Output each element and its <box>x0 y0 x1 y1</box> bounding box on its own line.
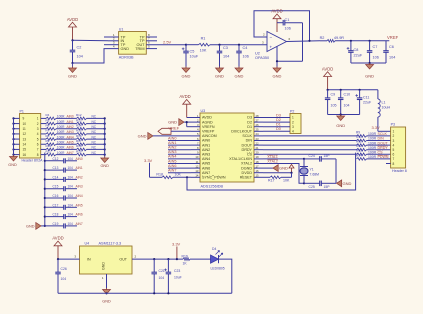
svg-text:GND: GND <box>26 224 35 228</box>
svg-text:R11: R11 <box>46 149 52 153</box>
IC U1 ADR03B body <box>119 32 147 55</box>
svg-text:1: 1 <box>292 116 294 120</box>
svg-text:C9: C9 <box>331 93 336 97</box>
resistor R12 100R on DRDY <box>357 148 367 151</box>
bottom ground rail <box>58 292 232 294</box>
svg-text:−: − <box>270 35 273 40</box>
U1 pin 4 GND wire <box>73 49 119 63</box>
svg-text:AIN5: AIN5 <box>202 162 210 166</box>
ground GND right of crystal <box>337 180 342 187</box>
svg-text:AIN2: AIN2 <box>202 148 210 152</box>
svg-text:D1: D1 <box>247 125 252 129</box>
capacitor C6 104 <box>385 41 387 51</box>
U1 pin 5 TRIM stub <box>146 48 157 50</box>
svg-text:ASM1117-3.3: ASM1117-3.3 <box>99 241 122 245</box>
svg-text:C14: C14 <box>53 175 59 179</box>
svg-text:XTAL1/CLKIN: XTAL1/CLKIN <box>229 157 252 161</box>
ground GND below C5 <box>185 67 187 69</box>
svg-text:AIN0: AIN0 <box>76 157 83 161</box>
ground below AVDD bank <box>340 115 342 117</box>
wire DIN from U3 to resistor <box>263 140 357 142</box>
P1 left pins ground rail <box>14 117 20 119</box>
capacitor C12 104 on AIN0 <box>44 160 46 162</box>
capacitor C10 104 <box>340 90 342 98</box>
svg-text:C21: C21 <box>159 269 165 273</box>
resistor R14 100R on PDWN row <box>357 158 367 161</box>
power arrow on DVDD <box>291 168 293 173</box>
ground GND at caps rail bottom <box>41 225 45 227</box>
svg-text:7.68M: 7.68M <box>310 173 320 177</box>
svg-text:3.3V: 3.3V <box>372 125 381 130</box>
svg-text:C26: C26 <box>61 267 67 271</box>
svg-text:R12: R12 <box>76 113 82 117</box>
svg-text:AIN2: AIN2 <box>76 175 83 179</box>
svg-text:104: 104 <box>68 166 74 170</box>
svg-text:R7: R7 <box>46 129 50 133</box>
AVDD rail <box>328 89 378 91</box>
svg-text:R15: R15 <box>76 129 82 133</box>
svg-text:R6: R6 <box>46 124 50 128</box>
AVDD bank ground rail <box>328 114 360 116</box>
svg-text:+: + <box>270 45 273 50</box>
op-amp U2 OPA350 triangle <box>267 32 287 52</box>
AIN caps ground rail <box>44 153 46 226</box>
ground below op-amp <box>276 67 278 69</box>
svg-text:GND: GND <box>273 74 282 79</box>
svg-text:1K: 1K <box>183 261 188 265</box>
svg-text:AGND: AGND <box>202 120 213 124</box>
svg-text:1: 1 <box>393 130 395 134</box>
svg-text:GND: GND <box>215 74 224 79</box>
svg-text:104: 104 <box>68 203 74 207</box>
svg-text:7: 7 <box>393 157 395 161</box>
capacitor C3 104 <box>218 44 220 46</box>
svg-text:6: 6 <box>37 143 39 147</box>
svg-text:4: 4 <box>393 143 395 147</box>
svg-text:D0: D0 <box>276 127 281 131</box>
wire PDWN to P3 pin7 <box>367 158 391 160</box>
capacitor C15 104 on AIN3 <box>44 188 46 190</box>
svg-text:2.5V: 2.5V <box>163 40 172 45</box>
svg-text:16: 16 <box>23 153 27 157</box>
svg-text:D4: D4 <box>212 247 216 251</box>
U1 pin 3 TP stub <box>104 44 119 46</box>
wire DOUT from U3 to resistor <box>263 144 357 146</box>
svg-text:GND: GND <box>279 166 288 171</box>
svg-text:C13: C13 <box>53 166 59 170</box>
svg-text:AIN3: AIN3 <box>76 185 83 189</box>
wire XTAL1 row <box>263 158 304 160</box>
svg-text:AIN4: AIN4 <box>168 155 176 159</box>
svg-text:AIN2: AIN2 <box>168 146 176 150</box>
svg-text:U2: U2 <box>255 52 260 56</box>
svg-text:14: 14 <box>23 143 27 147</box>
capacitor C4 106 <box>238 44 240 46</box>
svg-text:3: 3 <box>393 139 395 143</box>
svg-text:C25: C25 <box>309 185 315 189</box>
power AVDD (right mid) <box>327 77 329 90</box>
svg-text:3.3V: 3.3V <box>172 241 181 246</box>
wire DIN to P3 <box>367 140 391 142</box>
svg-text:10K: 10K <box>283 179 290 183</box>
resistor R11 100R on DOUT <box>357 144 367 147</box>
wire DRDY from U3 to resistor <box>263 149 357 151</box>
svg-text:GND: GND <box>336 123 345 128</box>
svg-text:104: 104 <box>77 55 83 59</box>
resistor R18 10K on SYNC <box>150 176 163 178</box>
ground GND at U3 DGND <box>263 167 273 169</box>
svg-text:ADR03B: ADR03B <box>119 56 134 60</box>
svg-text:AIN4: AIN4 <box>202 157 210 161</box>
svg-text:R10: R10 <box>356 135 362 139</box>
svg-text:10uH: 10uH <box>382 106 391 110</box>
svg-text:AIN7: AIN7 <box>76 222 83 226</box>
svg-text:GND: GND <box>168 120 177 125</box>
svg-text:104: 104 <box>68 157 74 161</box>
capacitor C14 104 on AIN2 <box>44 178 46 180</box>
svg-text:C18: C18 <box>53 213 59 217</box>
capacitor C18 104 on AIN6 <box>44 216 46 218</box>
ground below C4 <box>238 67 240 69</box>
svg-text:U3: U3 <box>201 109 206 113</box>
svg-text:8: 8 <box>393 162 395 166</box>
svg-text:L1: L1 <box>382 101 386 105</box>
svg-text:AIN1: AIN1 <box>202 143 210 147</box>
svg-text:U4: U4 <box>85 241 90 245</box>
svg-text:6: 6 <box>393 153 395 157</box>
svg-text:13: 13 <box>23 137 27 141</box>
power AVDD (bottom-left) <box>57 246 59 259</box>
wire SYNC_PDWN route down and right <box>186 176 188 178</box>
capacitor C11 22uF <box>359 90 361 98</box>
svg-text:C24: C24 <box>309 154 315 158</box>
svg-text:Y1: Y1 <box>310 168 314 172</box>
svg-text:R5: R5 <box>46 118 50 122</box>
U1 pin 6 OUT wire 2.5V <box>146 44 186 46</box>
svg-text:104: 104 <box>68 213 74 217</box>
svg-text:15P: 15P <box>324 154 331 158</box>
svg-text:R10: R10 <box>46 144 52 148</box>
svg-text:C15: C15 <box>53 185 59 189</box>
svg-text:R1: R1 <box>201 37 206 41</box>
wire DVDD down to RESET pullup <box>290 172 292 174</box>
svg-text:R9: R9 <box>356 130 360 134</box>
resistor R13 100R on CS <box>357 153 367 156</box>
svg-text:R13: R13 <box>76 118 82 122</box>
U3 left pin stubs <box>191 117 200 119</box>
svg-text:C8: C8 <box>354 48 359 52</box>
resistor R10 100R on DIN <box>357 139 367 142</box>
svg-text:P2: P2 <box>290 109 294 113</box>
svg-text:10K: 10K <box>175 172 182 176</box>
svg-text:C10: C10 <box>344 93 351 97</box>
svg-text:105: 105 <box>331 104 337 108</box>
svg-text:R19: R19 <box>182 254 188 258</box>
svg-text:R16: R16 <box>76 134 82 138</box>
wire SCLK to P3 <box>367 135 391 137</box>
svg-text:5: 5 <box>37 137 39 141</box>
wire CS from U3 to resistor <box>263 153 357 155</box>
svg-text:C6: C6 <box>389 45 394 49</box>
svg-text:GND: GND <box>102 262 106 270</box>
svg-text:C17: C17 <box>53 203 59 207</box>
feedback loop wire - to output <box>254 11 310 41</box>
svg-text:7: 7 <box>37 148 39 152</box>
svg-text:R19: R19 <box>76 149 82 153</box>
svg-text:AVDD: AVDD <box>52 236 63 241</box>
wire AVDD to U4 IN <box>58 258 80 260</box>
svg-text:R14: R14 <box>76 124 82 128</box>
svg-text:9: 9 <box>23 117 25 121</box>
svg-text:R17: R17 <box>76 139 82 143</box>
svg-text:R12: R12 <box>356 144 362 148</box>
wire AGND to VREFN <box>186 122 188 127</box>
svg-text:R9: R9 <box>46 139 50 143</box>
svg-text:3.3V: 3.3V <box>144 158 153 163</box>
svg-text:10uF: 10uF <box>190 55 199 59</box>
svg-text:15: 15 <box>23 148 27 152</box>
svg-text:GND: GND <box>365 74 374 79</box>
svg-text:C19: C19 <box>53 222 59 226</box>
header P2 body <box>290 114 301 134</box>
svg-text:OPA350: OPA350 <box>255 56 269 60</box>
svg-text:2: 2 <box>292 120 294 124</box>
svg-text:GND: GND <box>100 164 109 168</box>
svg-text:VREFP: VREFP <box>202 130 215 134</box>
wire L1 to P3 pin1 3.3V <box>378 130 391 132</box>
resistor R19 1K to LED <box>183 258 190 261</box>
svg-text:4: 4 <box>37 132 39 136</box>
svg-text:AIN3: AIN3 <box>202 153 210 157</box>
wire DRDY to P3 <box>367 149 391 151</box>
svg-text:D3: D3 <box>276 113 281 117</box>
svg-text:104: 104 <box>68 194 74 198</box>
svg-text:R8: R8 <box>46 134 50 138</box>
power AVDD above op-amp <box>276 19 278 32</box>
net labels AIN0-AIN7 wires to U3 <box>168 140 191 142</box>
capacitor C13 104 on AIN1 <box>44 169 46 171</box>
svg-text:AIN0: AIN0 <box>168 136 176 140</box>
svg-text:AIN6: AIN6 <box>202 166 210 170</box>
inductor L1 10uH <box>377 90 379 99</box>
svg-text:AIN1: AIN1 <box>168 141 176 145</box>
svg-text:VREF: VREF <box>387 35 399 40</box>
svg-text:22uF: 22uF <box>354 54 363 58</box>
U1 pin 8 TP stub <box>146 36 157 38</box>
VREF cap bank ground rail <box>351 62 386 64</box>
U4 GND pin stub <box>106 274 108 288</box>
svg-text:49.9R: 49.9R <box>334 36 344 40</box>
svg-text:DRDY: DRDY <box>242 148 253 152</box>
ground below U4 <box>106 288 108 290</box>
capacitor C2 104 <box>72 48 74 51</box>
svg-text:GND: GND <box>138 134 147 139</box>
svg-text:TRIM: TRIM <box>135 47 144 51</box>
svg-text:AVDD: AVDD <box>322 66 333 71</box>
svg-text:AIN7: AIN7 <box>202 171 210 175</box>
svg-text:22uF: 22uF <box>363 101 372 105</box>
svg-text:8: 8 <box>37 153 39 157</box>
capacitor C8 22uF <box>350 40 352 42</box>
capacitor C26 104 at U4 input <box>57 259 59 272</box>
capacitor C16 104 on AIN4 <box>44 197 46 199</box>
svg-text:OUT: OUT <box>119 258 127 262</box>
IC U3 ADS1256IDB body <box>200 113 254 182</box>
capacitor C5 10uF (2.5V rail) <box>185 44 187 46</box>
svg-text:C11: C11 <box>363 96 369 100</box>
svg-text:104: 104 <box>61 277 67 281</box>
svg-text:DGND: DGND <box>241 166 252 170</box>
svg-text:U1: U1 <box>119 27 124 31</box>
svg-text:D2: D2 <box>276 118 281 122</box>
op-amp V- rail to GND <box>276 46 278 67</box>
header P1 body <box>20 114 41 159</box>
svg-text:C4: C4 <box>243 46 248 50</box>
svg-text:VREF: VREF <box>169 126 180 131</box>
svg-text:AIN5: AIN5 <box>76 203 83 207</box>
svg-text:P1: P1 <box>20 109 24 113</box>
svg-text:XTAL1: XTAL1 <box>267 155 277 159</box>
svg-text:R18: R18 <box>156 172 163 176</box>
svg-text:GND: GND <box>8 163 17 167</box>
svg-text:R17: R17 <box>268 179 275 183</box>
svg-text:2: 2 <box>393 134 395 138</box>
svg-text:1: 1 <box>37 117 39 121</box>
svg-text:AVDD: AVDD <box>202 116 212 120</box>
bypass capacitor C1 106 <box>277 22 283 24</box>
svg-text:D0/CLKOUT: D0/CLKOUT <box>231 130 252 134</box>
resistor R17 10K on RESET <box>263 176 270 178</box>
svg-text:DVDD: DVDD <box>242 171 253 175</box>
wire XTAL2 row <box>263 164 304 184</box>
svg-text:106: 106 <box>243 55 249 59</box>
wire DOUT to P3 <box>367 144 391 146</box>
svg-text:AIN6: AIN6 <box>76 213 83 217</box>
ground GND below C2 <box>71 62 73 64</box>
wire LED to ground rail <box>219 259 232 293</box>
svg-text:5: 5 <box>393 148 395 152</box>
svg-text:3: 3 <box>37 127 39 131</box>
svg-text:GND: GND <box>121 47 130 51</box>
svg-text:D3: D3 <box>247 116 252 120</box>
resistor R1 10K (series 2.5V) <box>186 44 199 46</box>
capacitor C23 10uF on 3.3V <box>167 258 169 260</box>
crystal caps ground rail <box>335 159 337 183</box>
svg-text:4: 4 <box>292 130 294 134</box>
svg-text:XTAL2: XTAL2 <box>267 160 277 164</box>
U4 OUT wire 3.3V rail <box>132 258 183 260</box>
svg-text:IN: IN <box>87 258 91 262</box>
wires U3 D3-D0 to P2 with net labels <box>263 117 290 119</box>
svg-text:CS: CS <box>247 153 253 157</box>
wire CS to P3 <box>367 153 391 155</box>
svg-text:AVDD: AVDD <box>179 94 190 99</box>
svg-text:R18: R18 <box>76 144 82 148</box>
svg-text:106: 106 <box>285 27 291 31</box>
svg-text:C23: C23 <box>174 269 180 273</box>
wire 2.5V to op-amp + <box>210 44 267 46</box>
P3 pin8 stub <box>386 163 391 165</box>
svg-text:104: 104 <box>223 55 229 59</box>
svg-text:AIN3: AIN3 <box>168 150 176 154</box>
svg-text:R11: R11 <box>356 140 362 144</box>
svg-text:DOUT: DOUT <box>242 143 253 147</box>
resistor R9 100R on SCLK <box>357 135 367 138</box>
svg-text:R14: R14 <box>356 153 362 157</box>
svg-text:GND: GND <box>235 74 244 79</box>
U1 pin 2 IN wire <box>108 40 119 42</box>
svg-text:C3: C3 <box>223 46 228 50</box>
svg-text:C16: C16 <box>53 194 59 198</box>
svg-text:10uF: 10uF <box>174 276 182 280</box>
NC rail down to GND <box>104 118 106 156</box>
wire C1 right leg down to V- rail <box>302 23 304 62</box>
svg-text:11: 11 <box>23 127 27 131</box>
svg-text:C2: C2 <box>77 46 82 50</box>
header P3 body <box>391 127 406 168</box>
svg-text:GND: GND <box>102 300 111 304</box>
svg-text:RESET: RESET <box>240 176 253 180</box>
wire DVDD with power arrow <box>263 172 292 174</box>
ground GND left of P1 <box>13 154 15 156</box>
crystal Y1 7.68M <box>303 159 305 167</box>
svg-text:3: 3 <box>292 125 294 129</box>
svg-text:SYNC_PDWN: SYNC_PDWN <box>202 176 226 180</box>
svg-text:R13: R13 <box>356 149 362 153</box>
U2 pin2 - input stub <box>260 36 267 38</box>
svg-text:ADS1256IDB: ADS1256IDB <box>201 184 224 188</box>
power AVDD above U3 <box>186 104 188 117</box>
capacitor C7 106 <box>369 40 371 42</box>
svg-text:AIN4: AIN4 <box>76 194 83 198</box>
svg-text:C1: C1 <box>285 18 290 22</box>
regulator U4 body <box>80 246 133 274</box>
svg-text:104: 104 <box>68 222 74 226</box>
svg-text:AINCOM: AINCOM <box>202 134 217 138</box>
svg-text:104: 104 <box>159 276 165 280</box>
capacitor C25 15P on XTAL2 rail <box>304 182 320 184</box>
P1 right rows: 100R series + AINx + NC resistors <box>41 117 46 119</box>
svg-text:106: 106 <box>373 56 379 60</box>
svg-text:DIN: DIN <box>246 139 253 143</box>
svg-text:SCLK: SCLK <box>242 134 252 138</box>
svg-text:AIN6: AIN6 <box>168 164 176 168</box>
capacitor C21 104 on 3.3V <box>153 258 155 260</box>
capacitor C17 104 on AIN5 <box>44 206 46 208</box>
port VREF at U3 VREFP pin4 <box>158 128 171 134</box>
svg-text:12: 12 <box>23 132 27 136</box>
capacitor C24 15P on XTAL1 <box>304 158 320 160</box>
U3 right pin stubs <box>254 117 263 119</box>
svg-text:10K: 10K <box>200 49 207 53</box>
power AVDD (top-left) <box>72 27 74 40</box>
svg-text:10: 10 <box>23 122 27 126</box>
LED D4 LED0805 <box>211 255 219 263</box>
svg-text:Header 8X2A: Header 8X2A <box>22 158 44 162</box>
wire AVDD to U1 IN <box>73 39 109 42</box>
svg-text:15P: 15P <box>324 185 331 189</box>
svg-text:AIN5: AIN5 <box>168 159 176 163</box>
svg-text:GND: GND <box>68 74 77 79</box>
svg-text:AVDD: AVDD <box>67 17 78 22</box>
svg-text:GND: GND <box>182 74 191 79</box>
svg-text:104: 104 <box>389 56 395 60</box>
ground below VREF caps <box>369 63 371 65</box>
svg-text:R4: R4 <box>46 113 50 117</box>
svg-text:XTAL2: XTAL2 <box>241 162 252 166</box>
svg-text:C7: C7 <box>373 45 378 49</box>
svg-text:D1: D1 <box>276 123 281 127</box>
